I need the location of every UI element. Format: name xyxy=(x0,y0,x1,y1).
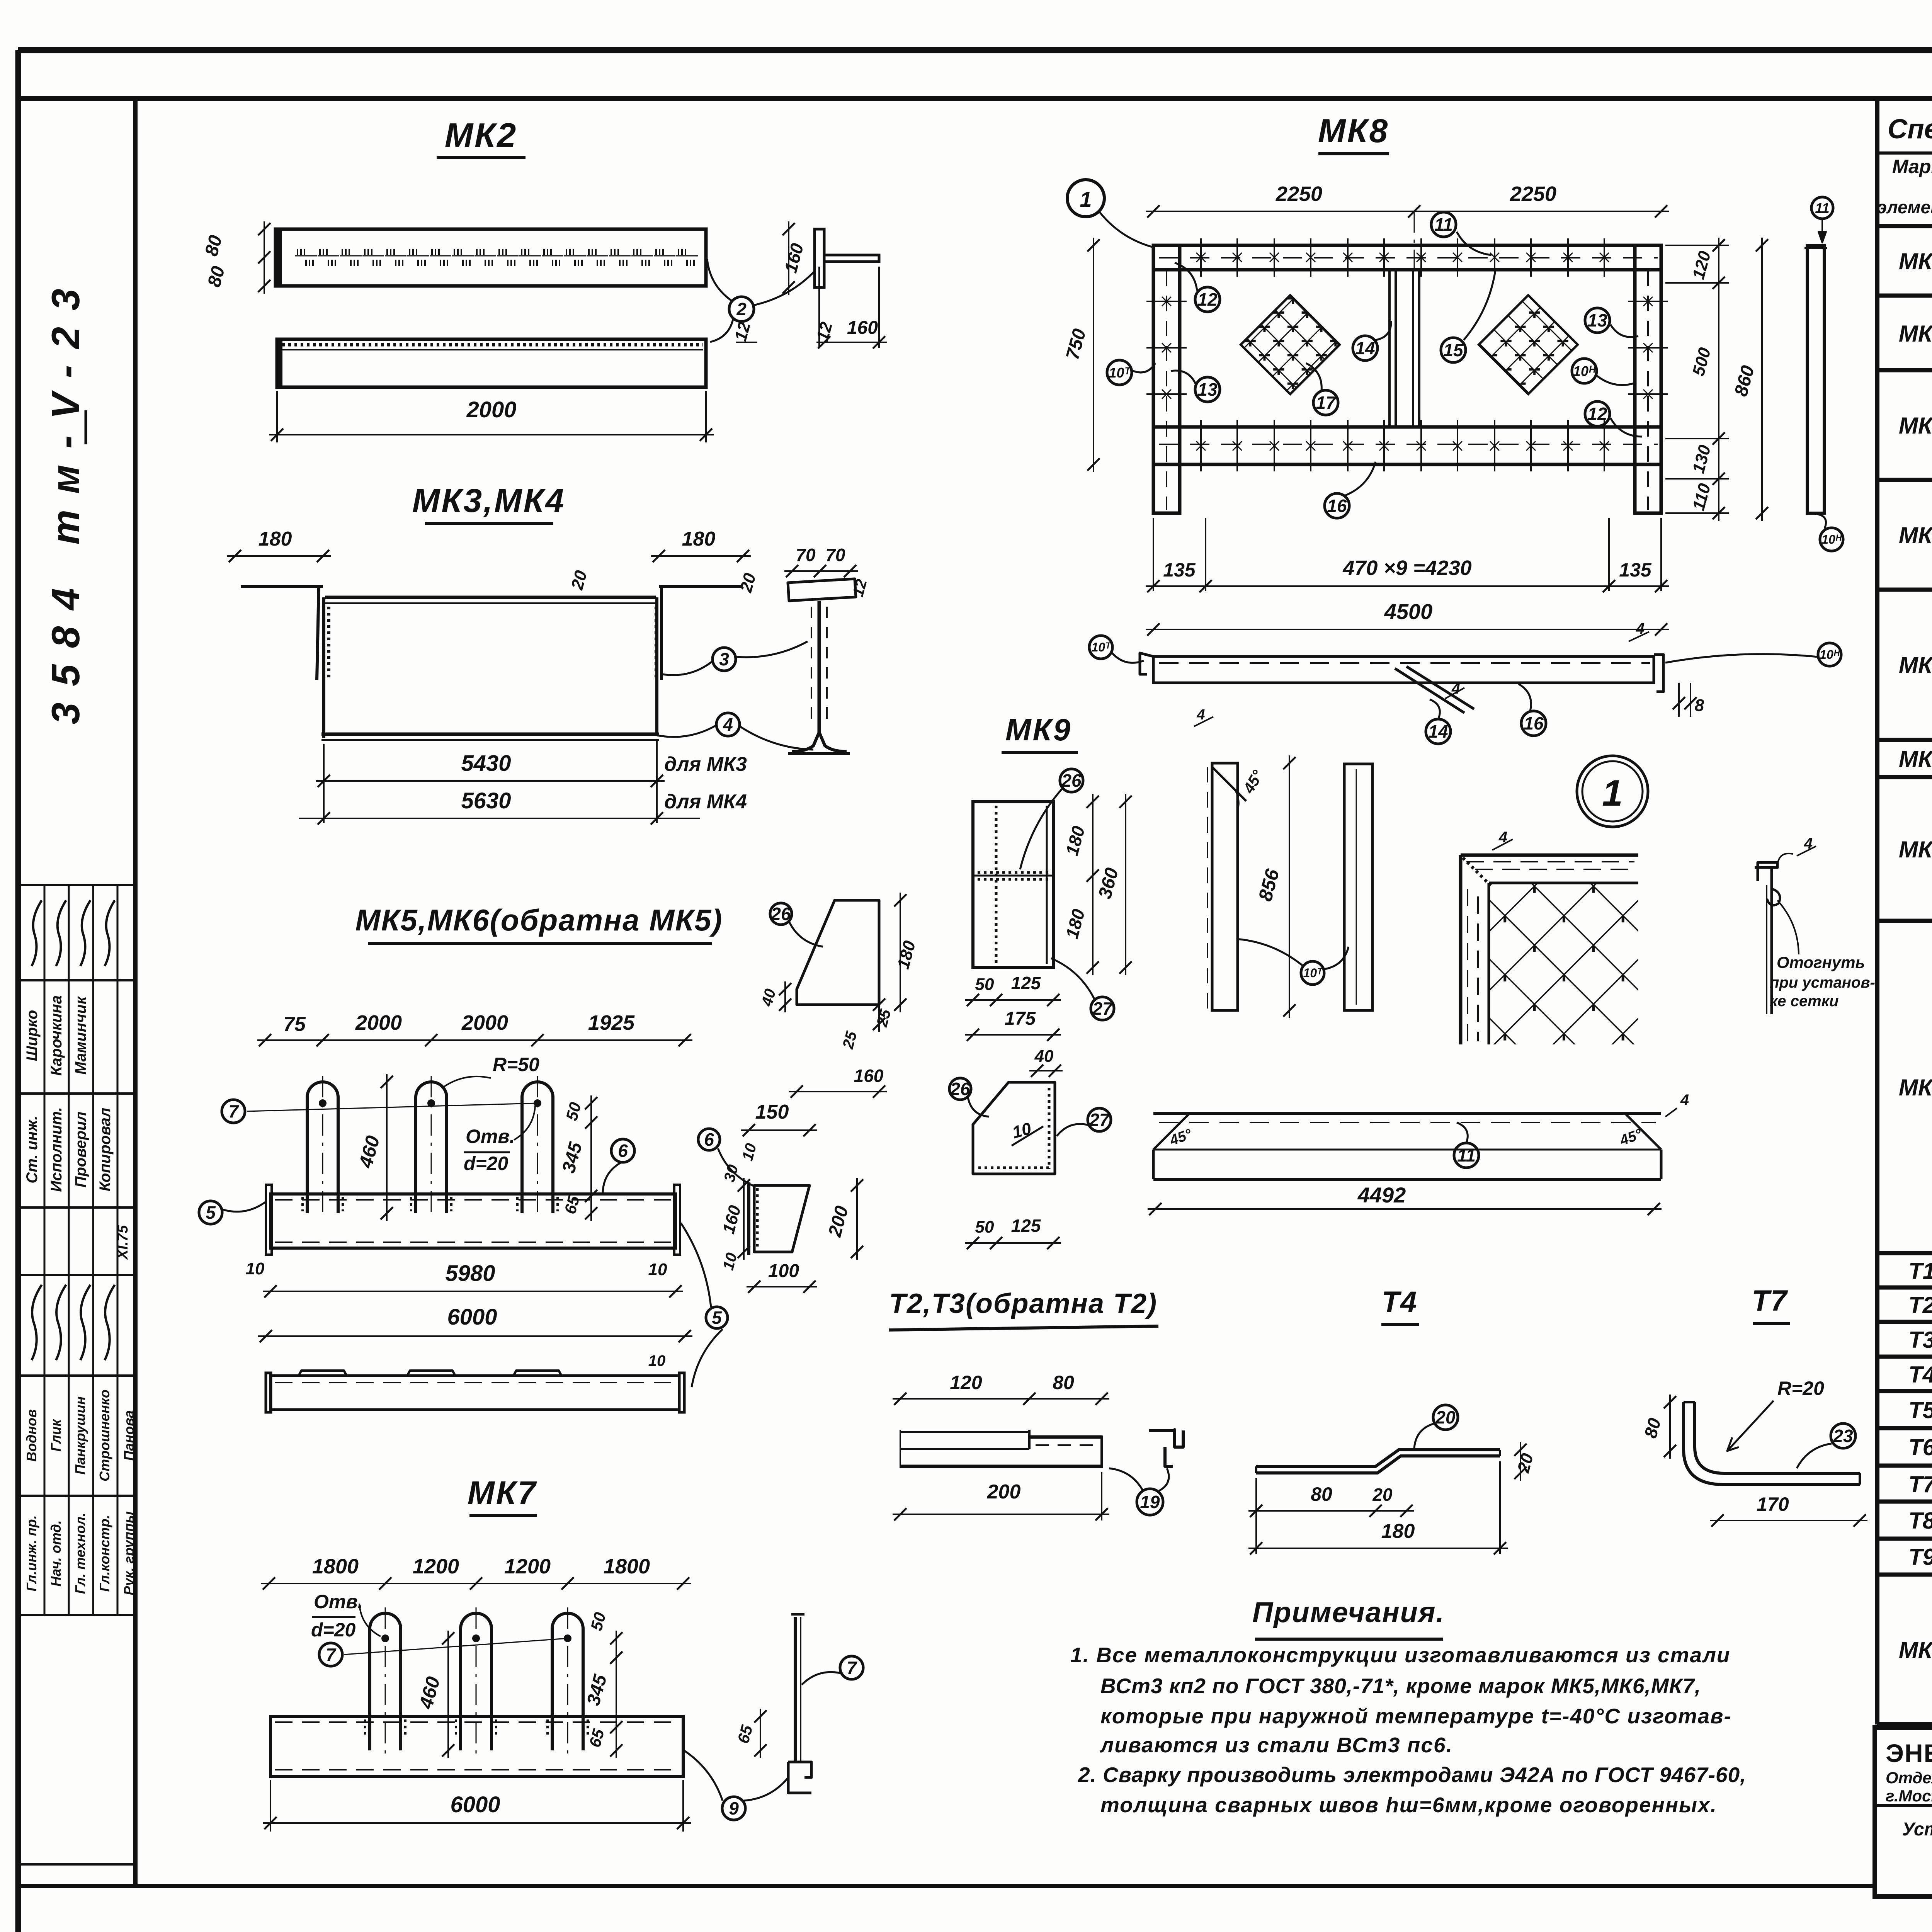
svg-text:Строшненко: Строшненко xyxy=(97,1389,112,1481)
svg-text:19: 19 xyxy=(1140,1492,1160,1512)
svg-text:175: 175 xyxy=(1005,1009,1036,1029)
svg-text:Панкрушин: Панкрушин xyxy=(72,1396,88,1475)
svg-text:Отделение Дальних Передач: Отделение Дальних Передач xyxy=(1886,1769,1932,1787)
svg-text:ЭНЕРГОСЕТЬПРОЕКТ: ЭНЕРГОСЕТЬПРОЕКТ xyxy=(1886,1739,1932,1767)
svg-text:4500: 4500 xyxy=(1384,599,1433,624)
svg-text:Панова: Панова xyxy=(121,1410,137,1461)
svg-text:5630: 5630 xyxy=(461,788,511,813)
svg-text:27: 27 xyxy=(1092,998,1113,1019)
svg-text:20: 20 xyxy=(1435,1407,1456,1427)
svg-text:9: 9 xyxy=(729,1798,739,1818)
svg-text:Т2,Т3(обратна Т2): Т2,Т3(обратна Т2) xyxy=(889,1288,1157,1319)
svg-text:170: 170 xyxy=(1757,1493,1789,1515)
svg-text:Отв.: Отв. xyxy=(466,1126,515,1147)
svg-text:20: 20 xyxy=(1372,1485,1393,1505)
svg-text:Карочкина: Карочкина xyxy=(48,995,65,1076)
svg-text:Гл. технол.: Гл. технол. xyxy=(72,1513,88,1594)
svg-text:14: 14 xyxy=(1355,338,1375,358)
svg-text:Гл.констр.: Гл.констр. xyxy=(97,1515,112,1592)
svg-text:R=50: R=50 xyxy=(493,1054,539,1075)
svg-text:120: 120 xyxy=(950,1372,982,1393)
svg-text:75: 75 xyxy=(283,1013,306,1036)
svg-text:26: 26 xyxy=(950,1079,970,1099)
svg-text:6000: 6000 xyxy=(450,1792,500,1817)
svg-text:ке сетки: ке сетки xyxy=(1770,993,1838,1010)
svg-text:5: 5 xyxy=(206,1202,216,1223)
svg-text:XI.75: XI.75 xyxy=(115,1225,131,1260)
svg-text:6: 6 xyxy=(704,1129,714,1150)
svg-text:11: 11 xyxy=(1457,1145,1476,1165)
svg-text:2. Сварку производить электр: 2. Сварку производить электродами Э42А п… xyxy=(1078,1763,1746,1787)
svg-text:МК5,МК6(обратна МК5): МК5,МК6(обратна МК5) xyxy=(355,903,723,937)
svg-text:МК4: МК4 xyxy=(1899,522,1932,548)
svg-text:МК5: МК5 xyxy=(1899,652,1932,678)
svg-text:Т9: Т9 xyxy=(1908,1544,1932,1570)
svg-text:4: 4 xyxy=(1196,707,1205,723)
svg-text:МК2: МК2 xyxy=(445,116,517,154)
svg-text:16: 16 xyxy=(1524,713,1544,733)
svg-text:125: 125 xyxy=(1011,973,1041,993)
svg-text:6000: 6000 xyxy=(447,1304,497,1330)
svg-text:10ᴴ: 10ᴴ xyxy=(1573,363,1596,379)
svg-text:МК1: МК1 xyxy=(1899,248,1932,274)
svg-text:1800: 1800 xyxy=(312,1555,359,1578)
svg-text:16: 16 xyxy=(1327,496,1347,516)
svg-text:для МК4: для МК4 xyxy=(664,791,747,813)
svg-text:Т5: Т5 xyxy=(1908,1397,1932,1423)
svg-text:135: 135 xyxy=(1163,559,1196,581)
svg-text:1: 1 xyxy=(1080,187,1092,211)
svg-text:80: 80 xyxy=(1311,1483,1332,1505)
svg-text:135: 135 xyxy=(1619,559,1652,581)
svg-text:Т2: Т2 xyxy=(1908,1292,1932,1318)
svg-text:Т6: Т6 xyxy=(1908,1434,1932,1460)
svg-text:12: 12 xyxy=(1587,404,1607,424)
svg-text:МК3: МК3 xyxy=(1899,413,1932,439)
svg-text:27: 27 xyxy=(1089,1110,1110,1130)
svg-text:Нач. отд.: Нач. отд. xyxy=(48,1520,64,1586)
svg-text:R=20: R=20 xyxy=(1777,1378,1824,1399)
svg-text:МК3,МК4: МК3,МК4 xyxy=(412,482,566,519)
svg-text:70: 70 xyxy=(825,545,845,565)
svg-text:для МК3: для МК3 xyxy=(664,753,747,776)
svg-text:40: 40 xyxy=(1034,1047,1054,1066)
svg-text:Т8: Т8 xyxy=(1908,1508,1932,1534)
svg-text:Ст. инж.: Ст. инж. xyxy=(24,1116,41,1183)
svg-text:14: 14 xyxy=(1428,721,1448,742)
svg-text:МК2: МК2 xyxy=(1899,321,1932,347)
svg-text:Исполнит.: Исполнит. xyxy=(48,1107,65,1192)
svg-text:Т3: Т3 xyxy=(1908,1327,1932,1353)
svg-text:Марка: Марка xyxy=(1892,156,1932,177)
svg-text:Отв.: Отв. xyxy=(314,1591,363,1612)
svg-text:6: 6 xyxy=(618,1141,628,1161)
svg-text:10ᴴ: 10ᴴ xyxy=(1821,532,1842,546)
svg-text:12: 12 xyxy=(1197,289,1218,310)
svg-text:Глик: Глик xyxy=(48,1419,64,1452)
svg-text:Воднов: Воднов xyxy=(24,1409,39,1462)
svg-text:10ᴴ: 10ᴴ xyxy=(1820,648,1840,662)
svg-text:10ᵀ: 10ᵀ xyxy=(1092,640,1112,654)
svg-text:Т4: Т4 xyxy=(1382,1286,1418,1318)
svg-text:11: 11 xyxy=(1815,200,1829,216)
svg-text:23: 23 xyxy=(1833,1426,1853,1446)
svg-text:Т7: Т7 xyxy=(1908,1471,1932,1497)
svg-text:элемента: элемента xyxy=(1877,197,1932,217)
svg-text:5430: 5430 xyxy=(461,751,511,776)
svg-text:80: 80 xyxy=(1053,1372,1074,1393)
svg-text:11: 11 xyxy=(1434,214,1453,235)
svg-text:100: 100 xyxy=(768,1261,799,1281)
svg-text:1200: 1200 xyxy=(413,1555,459,1578)
svg-text:МК8: МК8 xyxy=(1318,112,1389,150)
svg-text:5: 5 xyxy=(712,1308,722,1328)
svg-text:Т1: Т1 xyxy=(1908,1258,1932,1284)
svg-text:180: 180 xyxy=(259,528,292,550)
svg-text:МК7: МК7 xyxy=(1899,837,1932,862)
svg-text:Т4: Т4 xyxy=(1908,1362,1932,1388)
svg-text:Копировал: Копировал xyxy=(97,1108,114,1192)
svg-text:1. Все металлоконструкции из: 1. Все металлоконструкции изготавливаютс… xyxy=(1070,1643,1731,1667)
svg-text:150: 150 xyxy=(755,1101,789,1123)
svg-text:10: 10 xyxy=(648,1352,666,1369)
svg-text:Установка синхронных: Установка синхронных xyxy=(1902,1819,1932,1840)
svg-text:при установ-: при установ- xyxy=(1770,974,1875,991)
svg-text:2: 2 xyxy=(736,299,747,319)
svg-text:3: 3 xyxy=(719,649,729,669)
svg-text:толщина сварных швов hш=6мм: толщина сварных швов hш=6мм,кроме оговор… xyxy=(1100,1793,1717,1817)
svg-text:180: 180 xyxy=(682,528,716,550)
svg-text:МК9: МК9 xyxy=(1005,713,1072,747)
svg-text:7: 7 xyxy=(228,1101,239,1121)
svg-text:13: 13 xyxy=(1587,310,1607,330)
svg-text:180: 180 xyxy=(1381,1520,1415,1543)
svg-text:ливаются из стали ВСт3 пс6: ливаются из стали ВСт3 пс6. xyxy=(1099,1733,1453,1757)
svg-text:1925: 1925 xyxy=(588,1011,635,1034)
svg-text:МК8: МК8 xyxy=(1899,1075,1932,1100)
svg-text:Маминчик: Маминчик xyxy=(72,996,89,1075)
svg-text:2000: 2000 xyxy=(355,1011,402,1034)
svg-text:5980: 5980 xyxy=(445,1261,495,1286)
svg-text:200: 200 xyxy=(987,1481,1021,1503)
svg-text:10: 10 xyxy=(648,1260,667,1279)
svg-text:4: 4 xyxy=(1680,1092,1689,1109)
svg-text:13: 13 xyxy=(1197,379,1218,400)
svg-text:1200: 1200 xyxy=(504,1555,551,1578)
svg-text:Рук. группы: Рук. группы xyxy=(121,1511,137,1595)
svg-text:Т7: Т7 xyxy=(1752,1284,1788,1317)
svg-text:17: 17 xyxy=(1316,393,1337,413)
svg-text:Ширко: Ширко xyxy=(24,1010,41,1061)
svg-text:470 ×9 =4230: 470 ×9 =4230 xyxy=(1342,556,1471,580)
svg-text:7: 7 xyxy=(847,1658,857,1678)
svg-text:2250: 2250 xyxy=(1510,182,1556,206)
svg-text:Спецификация стали на один ста: Спецификация стали на один стальной элем… xyxy=(1888,114,1932,145)
svg-text:125: 125 xyxy=(1011,1216,1041,1236)
svg-text:10ᵀ: 10ᵀ xyxy=(1303,966,1323,980)
svg-text:которые при наружной темпер: которые при наружной температуре t=-40°С… xyxy=(1100,1704,1732,1728)
svg-text:26: 26 xyxy=(1061,770,1082,791)
svg-text:1800: 1800 xyxy=(604,1555,650,1578)
svg-text:50: 50 xyxy=(975,975,994,994)
svg-text:2000: 2000 xyxy=(466,397,516,422)
svg-text:160: 160 xyxy=(854,1066,884,1086)
svg-text:3584 тм-V-23: 3584 тм-V-23 xyxy=(44,272,88,724)
svg-text:d=20: d=20 xyxy=(311,1619,356,1641)
svg-text:70: 70 xyxy=(796,545,816,565)
svg-text:Проверил: Проверил xyxy=(72,1111,89,1187)
svg-text:15: 15 xyxy=(1443,340,1464,360)
svg-text:10ᵀ: 10ᵀ xyxy=(1109,365,1131,381)
svg-text:ВСт3 кп2 по ГОСТ 380,-71*,: ВСт3 кп2 по ГОСТ 380,-71*, кроме марок М… xyxy=(1100,1674,1701,1698)
svg-text:2000: 2000 xyxy=(461,1011,508,1034)
svg-text:10: 10 xyxy=(246,1259,265,1278)
svg-text:Примечания.: Примечания. xyxy=(1252,1596,1445,1628)
svg-text:d=20: d=20 xyxy=(464,1153,509,1174)
svg-text:50: 50 xyxy=(975,1218,994,1236)
svg-text:МК7: МК7 xyxy=(468,1475,537,1511)
svg-text:МК9: МК9 xyxy=(1899,1637,1932,1663)
svg-text:2250: 2250 xyxy=(1276,182,1322,206)
svg-text:1: 1 xyxy=(1602,772,1622,814)
svg-text:Отогнуть: Отогнуть xyxy=(1777,953,1865,971)
svg-text:26: 26 xyxy=(770,904,791,924)
svg-text:Гл.инж. пр.: Гл.инж. пр. xyxy=(24,1515,39,1591)
svg-text:160: 160 xyxy=(847,318,878,338)
svg-text:МК6: МК6 xyxy=(1899,746,1932,772)
svg-text:4492: 4492 xyxy=(1357,1183,1406,1207)
svg-text:г.Москва: г.Москва xyxy=(1886,1787,1932,1805)
svg-text:7: 7 xyxy=(326,1645,337,1665)
svg-text:4: 4 xyxy=(723,714,733,735)
